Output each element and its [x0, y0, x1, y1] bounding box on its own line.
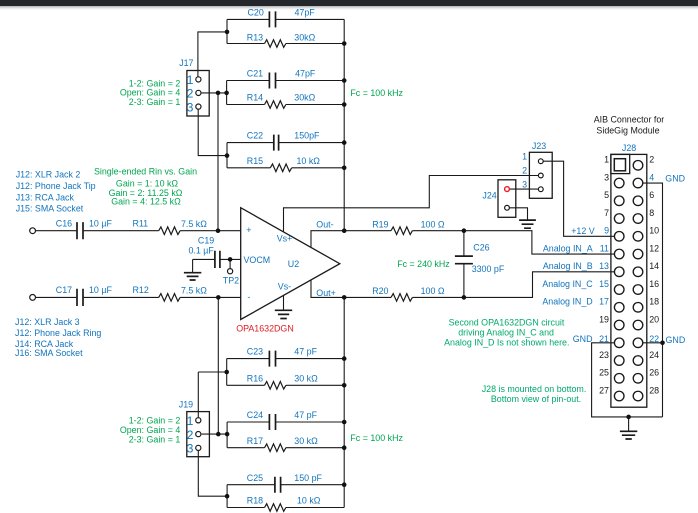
svg-text:16: 16 — [649, 279, 659, 289]
svg-text:24: 24 — [649, 350, 659, 360]
svg-text:C25: C25 — [247, 473, 263, 483]
svg-text:J12: XLR Jack 2: J12: XLR Jack 2 — [16, 170, 81, 180]
svg-text:R15: R15 — [247, 156, 263, 166]
svg-text:23: 23 — [599, 350, 609, 360]
svg-text:10 µF: 10 µF — [89, 285, 112, 295]
svg-text:20: 20 — [649, 314, 659, 324]
svg-text:GND: GND — [666, 335, 686, 345]
svg-text:10: 10 — [649, 226, 659, 236]
svg-text:Analog IN_D: Analog IN_D — [542, 297, 592, 307]
svg-text:Vs+: Vs+ — [277, 234, 293, 244]
svg-text:11: 11 — [600, 243, 609, 253]
svg-text:3300 pF: 3300 pF — [472, 264, 505, 274]
svg-text:1: 1 — [604, 155, 609, 165]
svg-text:SideGig Module: SideGig Module — [596, 125, 659, 135]
svg-text:19: 19 — [599, 314, 609, 324]
svg-text:Second OPA1632DGN circuit: Second OPA1632DGN circuit — [449, 318, 565, 328]
svg-text:R12: R12 — [133, 285, 149, 295]
svg-text:2: 2 — [649, 155, 654, 165]
svg-text:17: 17 — [599, 297, 609, 307]
svg-text:4: 4 — [649, 172, 654, 182]
svg-text:GND: GND — [573, 334, 593, 344]
svg-text:7.5 kΩ: 7.5 kΩ — [181, 219, 207, 229]
svg-text:Fc = 240 kHz: Fc = 240 kHz — [397, 259, 450, 269]
svg-text:driving Analog IN_C and: driving Analog IN_C and — [458, 328, 554, 338]
svg-text:Gain = 1: 10 kΩ: Gain = 1: 10 kΩ — [116, 178, 179, 188]
svg-text:1: 1 — [187, 73, 194, 87]
svg-text:8: 8 — [649, 208, 654, 218]
svg-text:47pF: 47pF — [295, 69, 316, 79]
svg-text:C17: C17 — [56, 285, 72, 295]
svg-text:Open: Gain = 4: Open: Gain = 4 — [120, 425, 181, 435]
svg-text:10 kΩ: 10 kΩ — [297, 496, 321, 506]
svg-text:18: 18 — [649, 297, 659, 307]
svg-text:10 µF: 10 µF — [89, 219, 112, 229]
svg-text:J19: J19 — [179, 400, 193, 410]
svg-text:Vs-: Vs- — [278, 282, 291, 292]
svg-text:-: - — [247, 292, 250, 302]
svg-text:14: 14 — [649, 261, 659, 271]
svg-text:22: 22 — [649, 334, 659, 344]
svg-text:30 kΩ: 30 kΩ — [294, 436, 318, 446]
svg-text:+12 V: +12 V — [571, 226, 595, 236]
svg-text:7: 7 — [604, 208, 609, 218]
svg-text:AIB Connector for: AIB Connector for — [594, 114, 665, 124]
svg-text:OPA1632DGN: OPA1632DGN — [236, 324, 294, 334]
svg-text:C22: C22 — [247, 131, 263, 141]
svg-text:J24: J24 — [482, 191, 496, 201]
svg-text:15: 15 — [599, 279, 609, 289]
svg-text:C16: C16 — [56, 219, 72, 229]
svg-text:30 kΩ: 30 kΩ — [294, 373, 318, 383]
svg-text:27: 27 — [599, 385, 609, 395]
svg-text:Bottom view of pin-out.: Bottom view of pin-out. — [491, 394, 581, 404]
svg-text:1-2: Gain = 2: 1-2: Gain = 2 — [129, 416, 181, 426]
svg-text:Out+: Out+ — [316, 288, 336, 298]
svg-text:30kΩ: 30kΩ — [294, 93, 315, 103]
svg-text:C23: C23 — [247, 347, 263, 357]
svg-text:30kΩ: 30kΩ — [294, 33, 315, 43]
svg-text:U2: U2 — [288, 259, 299, 269]
svg-text:Open: Gain = 4: Open: Gain = 4 — [120, 88, 181, 98]
svg-text:26: 26 — [649, 368, 659, 378]
svg-text:21: 21 — [599, 334, 609, 344]
svg-text:VOCM: VOCM — [244, 255, 271, 265]
svg-text:3: 3 — [604, 172, 609, 182]
svg-text:R16: R16 — [247, 373, 263, 383]
svg-text:Analog IN_C: Analog IN_C — [542, 279, 593, 289]
svg-text:2-3: Gain = 1: 2-3: Gain = 1 — [129, 435, 181, 445]
svg-text:J16: SMA Socket: J16: SMA Socket — [15, 348, 83, 358]
svg-text:28: 28 — [649, 385, 659, 395]
svg-text:47 pF: 47 pF — [294, 347, 317, 357]
svg-text:TP2: TP2 — [223, 276, 239, 286]
svg-text:1: 1 — [522, 152, 527, 162]
svg-text:2-3: Gain = 1: 2-3: Gain = 1 — [129, 97, 181, 107]
svg-text:100 Ω: 100 Ω — [421, 219, 445, 229]
svg-text:150pF: 150pF — [294, 131, 320, 141]
svg-text:3: 3 — [522, 180, 527, 190]
svg-text:C24: C24 — [247, 410, 263, 420]
svg-text:5: 5 — [604, 190, 609, 200]
svg-text:R17: R17 — [247, 436, 263, 446]
svg-text:J23: J23 — [532, 141, 546, 151]
svg-text:1: 1 — [187, 414, 194, 428]
svg-text:+: + — [246, 225, 251, 235]
svg-text:J15: SMA Socket: J15: SMA Socket — [16, 204, 84, 214]
svg-text:3: 3 — [187, 442, 194, 456]
svg-text:R14: R14 — [247, 93, 263, 103]
svg-text:GND: GND — [665, 173, 685, 183]
svg-text:C21: C21 — [247, 69, 263, 79]
svg-text:10 kΩ: 10 kΩ — [297, 156, 321, 166]
svg-text:J28: J28 — [622, 143, 636, 153]
svg-text:100 Ω: 100 Ω — [421, 286, 445, 296]
svg-text:J12: Phone Jack Ring: J12: Phone Jack Ring — [15, 328, 101, 338]
svg-text:Analog IN_B: Analog IN_B — [543, 261, 593, 271]
svg-text:R13: R13 — [247, 33, 263, 43]
svg-text:12: 12 — [649, 243, 659, 253]
svg-text:Fc = 100 kHz: Fc = 100 kHz — [350, 433, 403, 443]
svg-text:Analog IN_D Is not shown here.: Analog IN_D Is not shown here. — [444, 338, 569, 348]
svg-text:R20: R20 — [372, 286, 388, 296]
svg-text:47 pF: 47 pF — [294, 410, 317, 420]
svg-text:J28 is mounted on bottom.: J28 is mounted on bottom. — [482, 384, 587, 394]
svg-text:3: 3 — [187, 100, 194, 114]
svg-text:Out-: Out- — [316, 220, 333, 230]
svg-text:2: 2 — [187, 428, 194, 442]
svg-text:13: 13 — [599, 261, 609, 271]
svg-text:Analog IN_A: Analog IN_A — [543, 243, 593, 253]
svg-text:R18: R18 — [247, 496, 263, 506]
svg-text:Fc = 100 kHz: Fc = 100 kHz — [350, 88, 403, 98]
svg-text:J12: Phone Jack Tip: J12: Phone Jack Tip — [16, 181, 96, 191]
svg-text:J12: XLR Jack 3: J12: XLR Jack 3 — [15, 317, 80, 327]
svg-text:C26: C26 — [473, 243, 489, 253]
svg-text:C19: C19 — [198, 236, 214, 246]
svg-text:6: 6 — [649, 190, 654, 200]
svg-text:47pF: 47pF — [295, 8, 316, 18]
svg-text:R11: R11 — [133, 219, 149, 229]
svg-text:J17: J17 — [179, 58, 193, 68]
svg-text:Single-ended Rin vs. Gain: Single-ended Rin vs. Gain — [94, 167, 197, 177]
svg-text:2: 2 — [187, 87, 194, 101]
svg-text:0.1 µF: 0.1 µF — [188, 245, 214, 255]
svg-text:Gain = 4: 12.5 kΩ: Gain = 4: 12.5 kΩ — [111, 197, 181, 207]
svg-text:25: 25 — [599, 368, 609, 378]
svg-text:C20: C20 — [248, 8, 264, 18]
svg-text:J13: RCA Jack: J13: RCA Jack — [16, 192, 75, 202]
svg-text:2: 2 — [522, 166, 527, 176]
svg-text:7.5 kΩ: 7.5 kΩ — [181, 286, 207, 296]
svg-text:9: 9 — [604, 226, 609, 236]
svg-text:R19: R19 — [372, 219, 388, 229]
svg-text:150 pF: 150 pF — [294, 473, 322, 483]
